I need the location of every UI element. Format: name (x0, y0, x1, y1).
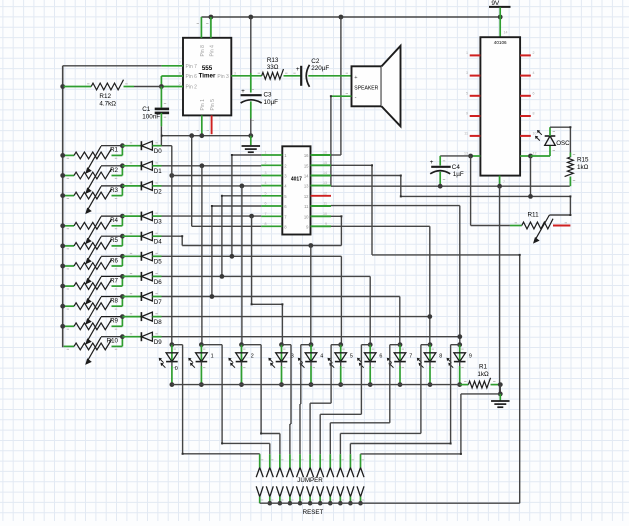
junction trimmer R7 top (120, 274, 125, 279)
diode D2 (141, 181, 152, 190)
label LED7 number (409, 354, 412, 360)
wire LED1 cathode leg (200, 362, 202, 385)
wire gnd riser right (499, 186, 501, 394)
junction gnd symbol node (248, 133, 253, 138)
wire LED4 top connector (301, 344, 311, 346)
ticks D0 (130, 142, 158, 143)
label C1 (142, 106, 151, 113)
label C3 value (264, 99, 279, 106)
wire C3 top leg (250, 73, 252, 93)
svg-text:9: 9 (325, 222, 327, 226)
pin tick marks (87, 23, 575, 382)
wire D8 row (162, 316, 430, 318)
svg-text:D0: D0 (154, 148, 162, 155)
svg-text:10: 10 (304, 214, 309, 219)
label C2 (311, 58, 320, 65)
wire LED5 top connector (331, 344, 341, 346)
wire gnd stub (250, 136, 252, 146)
svg-text:16: 16 (304, 153, 309, 158)
wire rail to R1 (460, 384, 469, 386)
wire pin6 down to pin2 node (160, 76, 162, 87)
junction C3 on bus (248, 15, 253, 20)
wire C3 bottom leg (250, 101, 252, 135)
trimmer R5 (64, 236, 123, 264)
wire LED4 anode leg (310, 345, 312, 363)
ticks R2 (67, 178, 118, 179)
svg-text:1kΩ: 1kΩ (477, 371, 489, 378)
svg-text:15: 15 (323, 161, 327, 165)
op-amp 555 timer body U2 (183, 38, 231, 116)
junction trimmer R8 top (120, 294, 125, 299)
label C3 (264, 91, 273, 98)
speaker SP1 body (352, 46, 401, 127)
svg-text:D2: D2 (154, 188, 162, 195)
ticks R6 (67, 268, 118, 269)
junction R1 gnd (498, 382, 503, 387)
junction rail R12 row (60, 84, 65, 89)
wire gnd node left (461, 393, 500, 395)
ticks LED0 (174, 349, 176, 368)
wire D4 row (162, 236, 183, 245)
wire D3 row to 4017 pin7 (162, 215, 262, 217)
pin 555 pin8 leg (200, 17, 202, 38)
junction pin4 D2 column (240, 184, 245, 189)
pin 555 pin7 leg (161, 65, 183, 67)
wire D6 cathode leg (122, 275, 141, 277)
led LED5 (328, 353, 347, 368)
label D8 (154, 319, 162, 326)
svg-text:C3: C3 (264, 91, 273, 98)
wire R15 bottom leg (569, 177, 571, 187)
labels 4017 outer pin numbers (265, 151, 328, 226)
svg-text:+: + (430, 159, 434, 166)
wire 4017 pin1 to D5 column (232, 155, 261, 256)
svg-text:D5: D5 (154, 259, 162, 266)
trimmer R2 (64, 166, 123, 194)
svg-text:R2: R2 (110, 167, 118, 174)
ticks R1 (67, 158, 118, 159)
junction pin2 pin6 C1 node (159, 84, 164, 89)
label R8 (110, 298, 118, 305)
svg-text:16: 16 (323, 151, 327, 155)
label D7 (154, 299, 162, 306)
wire 9V bar to bus (499, 7, 501, 17)
svg-text:Pin 8: Pin 8 (200, 45, 206, 57)
diode D0 (141, 141, 152, 150)
trimmer R10 (64, 337, 123, 365)
label D3 (154, 219, 162, 226)
ticks D9 (130, 333, 158, 334)
power 9V bar (489, 6, 511, 8)
wire jumper pin7 route (320, 345, 361, 455)
junction pin12 clock (528, 194, 533, 199)
wire D0 cathode leg (122, 145, 141, 147)
ticks LED8 (432, 349, 434, 368)
junction rail R1 (60, 153, 65, 158)
wire jumper pin4 route (290, 345, 291, 455)
svg-text:8: 8 (439, 354, 442, 360)
svg-text:12: 12 (323, 191, 327, 195)
label 555 Pin 5 (210, 99, 216, 111)
svg-text:Pin 3: Pin 3 (217, 74, 229, 80)
svg-text:C2: C2 (311, 58, 320, 65)
svg-text:40106: 40106 (494, 40, 507, 45)
ticks R5 (67, 248, 118, 249)
svg-text:100nF: 100nF (142, 114, 160, 121)
svg-text:JUMPER: JUMPER (297, 477, 323, 484)
svg-text:Pin 4: Pin 4 (209, 45, 215, 57)
label LED8 number (439, 354, 442, 360)
wire C1 bottom leg (160, 113, 162, 136)
wire 4017 pin5 to D6 column (222, 196, 261, 277)
wire LED0 top connector (172, 344, 183, 346)
wire D1 cathode leg (122, 165, 141, 167)
trimmer R7 (64, 276, 123, 304)
wire jumper pin2 route (222, 345, 270, 455)
diode D7 (141, 292, 152, 301)
wire pin12 down to clock (530, 156, 532, 196)
wire R1 right leg (491, 384, 501, 386)
svg-text:8: 8 (533, 112, 535, 116)
svg-text:7: 7 (409, 354, 412, 360)
svg-text:7: 7 (265, 212, 267, 216)
ticks R9 (67, 329, 118, 330)
label LED0 number (175, 366, 178, 372)
wire LED7 top connector (390, 344, 400, 346)
capacitor C1 plates (155, 109, 169, 113)
svg-text:2: 2 (251, 354, 254, 360)
label R15 (577, 157, 589, 164)
led LED6 (357, 353, 376, 368)
svg-text:6: 6 (179, 72, 181, 76)
wire LED3 top connector (282, 344, 292, 346)
wire C4 top leg (439, 156, 441, 166)
label D5 (154, 259, 162, 266)
wire LED1 anode leg (200, 345, 202, 363)
svg-text:4017: 4017 (291, 177, 302, 183)
wire D3 anode leg (152, 215, 161, 217)
svg-text:14: 14 (304, 174, 309, 179)
svg-text:14: 14 (323, 171, 327, 175)
junction rail R3 (60, 193, 65, 198)
labels 4017 pin numbers (284, 153, 309, 229)
wire LED2 top connector (242, 344, 262, 346)
trimmer R3 (64, 186, 123, 214)
pin 40106 pin13 leg (471, 155, 481, 157)
svg-text:3: 3 (265, 171, 267, 175)
svg-text:D1: D1 (154, 168, 162, 175)
wire bend points (161, 95, 572, 455)
junction rail R4 (60, 223, 65, 228)
junction LED8 rail (428, 382, 433, 387)
junction LED3 top (279, 342, 284, 347)
pin 555 pin1 leg (201, 115, 203, 135)
diode D5 (141, 252, 152, 261)
wire R11 wiper (549, 196, 570, 215)
inverter 40106 body U1 (480, 37, 520, 175)
svg-text:Pin 2: Pin 2 (186, 85, 198, 91)
svg-text:9: 9 (469, 354, 472, 360)
led LED0 (159, 353, 178, 368)
resistor R12 zigzag (91, 80, 123, 90)
svg-text:D4: D4 (154, 239, 162, 246)
led LED4 (298, 353, 317, 368)
junction trimmer R2 top (120, 163, 125, 168)
label D4 (154, 239, 162, 246)
wire LED2 cathode leg (241, 362, 243, 385)
counter 4017 body U3 (282, 146, 310, 234)
label 555 Pin 7 (186, 64, 198, 70)
diode D8 (141, 312, 152, 321)
wire D6 anode leg (152, 275, 161, 277)
label C2 value (311, 65, 329, 72)
diode D6 (141, 272, 152, 281)
wire jumper pin5 route (299, 345, 302, 455)
svg-text:+: + (354, 75, 357, 81)
wire pin12 to OSC led (531, 155, 551, 157)
label LED2 number (251, 354, 254, 360)
led LED2 (228, 353, 247, 368)
ticks LED5 (342, 349, 344, 368)
junction LED1 top (199, 342, 204, 347)
wire C4 bottom leg (439, 172, 441, 186)
wire OSC top to R15 (550, 127, 570, 152)
junction LED7 top (398, 342, 403, 347)
svg-text:D8: D8 (154, 319, 162, 326)
label R9 (110, 318, 118, 325)
svg-text:R7: R7 (110, 277, 118, 284)
wire LED5 cathode leg (340, 362, 342, 385)
label D6 (154, 279, 162, 286)
trimmer R11 zigzag (522, 219, 553, 229)
wire LED9 top connector (451, 344, 460, 346)
wire D2 row to 4017 pin4 (162, 185, 262, 187)
diode D1 (141, 161, 152, 170)
pin 555 pin3 leg (231, 75, 261, 77)
label R13 (267, 57, 279, 64)
junction LED4 rail (309, 382, 314, 387)
diode D4 (141, 232, 152, 241)
wire LED6 top connector (361, 344, 370, 346)
wire speaker minus down (330, 96, 332, 185)
svg-text:R8: R8 (110, 298, 118, 305)
svg-text:0: 0 (175, 366, 178, 372)
junction rail R5 (60, 244, 65, 249)
svg-text:1µF: 1µF (453, 171, 464, 178)
trimmer R4 (64, 216, 123, 244)
junction pin7 D3 column (249, 214, 254, 219)
svg-text:D7: D7 (154, 299, 162, 306)
wire D4 anode leg (152, 235, 161, 237)
svg-text:15: 15 (304, 163, 309, 168)
wire jumper pin3 route (261, 345, 280, 455)
junction trimmer R1 top (120, 143, 125, 148)
wire LED2 anode leg (241, 345, 243, 363)
wire bus to C3 (250, 17, 252, 73)
svg-text:13: 13 (323, 181, 327, 185)
wire LED4 cathode leg (310, 362, 312, 385)
wire LED8 top connector (421, 344, 430, 346)
wire D9 row (162, 336, 460, 338)
svg-text:5: 5 (350, 354, 353, 360)
svg-text:Pin 7: Pin 7 (186, 64, 198, 70)
junction gnd 4017pin8 riser (189, 133, 194, 138)
label 555 Pin 8 (200, 45, 206, 57)
svg-text:R12: R12 (99, 93, 111, 100)
ticks LED3 (283, 349, 285, 368)
label LED9 number (469, 354, 472, 360)
svg-text:6: 6 (265, 202, 267, 206)
svg-text:3: 3 (466, 71, 468, 75)
svg-text:1kΩ: 1kΩ (577, 164, 589, 171)
power 9V label (491, 0, 500, 7)
wire D8 anode leg (152, 316, 161, 318)
junction trimmer R5 top (120, 234, 125, 239)
wire D3 cathode leg (122, 215, 141, 217)
svg-text:R15: R15 (577, 157, 589, 164)
wire D5 cathode leg (122, 255, 141, 257)
pins 40106 unconnected red (470, 55, 531, 135)
wire D7 cathode leg (122, 296, 141, 298)
svg-text:R9: R9 (110, 318, 118, 325)
svg-text:4: 4 (265, 181, 267, 185)
connector JUMPER pins (256, 454, 364, 477)
svg-text:7: 7 (179, 61, 181, 65)
wire LED cathode rail (172, 384, 460, 386)
junction gnd right node (498, 392, 503, 397)
wire 4017 pin14 clock riser (331, 176, 401, 197)
junction LED6 rail (368, 382, 373, 387)
wire gnd symbol stub (499, 394, 501, 401)
junction LED3 rail (279, 382, 284, 387)
svg-text:R3: R3 (110, 187, 118, 194)
svg-text:R6: R6 (110, 257, 118, 264)
wire speaker minus leg (331, 95, 352, 97)
svg-text:1: 1 (265, 151, 267, 155)
resistor R13 zigzag (262, 69, 284, 79)
pins 4017 legs (261, 155, 331, 226)
pin 555 pin2 leg (161, 86, 183, 88)
ticks R7 (67, 289, 118, 290)
trimmer R6 (64, 256, 123, 284)
trimmer R9 (64, 317, 123, 345)
ticks LED6 (372, 349, 374, 368)
junction C4 gnd (438, 184, 443, 189)
label 555 Pin 1 (200, 99, 206, 111)
label 555 Pin 2 (186, 85, 198, 91)
label speaker minus (355, 94, 357, 100)
svg-text:R11: R11 (528, 212, 540, 219)
wire OSC led bottom leg (549, 145, 551, 156)
label LED3 number (291, 354, 294, 360)
svg-text:11: 11 (323, 202, 327, 206)
label 555 Pin 6 (186, 74, 198, 80)
svg-text:8: 8 (265, 222, 267, 226)
junction LED9 rail (457, 382, 462, 387)
svg-text:D9: D9 (154, 339, 162, 346)
wire gnd2 line (331, 185, 570, 187)
capacitor C3 plates (241, 95, 262, 103)
wire pin13 to C4 (440, 155, 470, 157)
label R12 (99, 93, 111, 100)
svg-text:5: 5 (265, 191, 267, 195)
junction rail R2 (60, 173, 65, 178)
ticks D4 (130, 233, 158, 234)
pin R11 right red (553, 225, 570, 227)
label 555 Pin 4 (209, 45, 215, 57)
junction LED9 top (457, 342, 462, 347)
junction LED6 top (368, 342, 373, 347)
svg-text:6: 6 (379, 354, 382, 360)
wire bus to 4017 pin16 (340, 17, 342, 155)
wire D9 cathode leg (122, 336, 141, 338)
wire pin13 down to R11 (471, 156, 510, 226)
svg-text:10: 10 (323, 212, 327, 216)
wire jumper pin11 route (361, 394, 461, 454)
pin 40106 pin7 leg (499, 176, 501, 187)
led LED8 (417, 353, 436, 368)
ticks D3 (130, 213, 158, 214)
svg-text:2: 2 (533, 51, 535, 55)
junction 40106 pin12 node (528, 154, 533, 159)
junction LED4 feed (308, 243, 313, 248)
diode D3 (141, 212, 152, 221)
wire LED0 anode leg (171, 345, 173, 363)
wire R13 to C2 (284, 75, 302, 77)
svg-text:7: 7 (503, 180, 505, 184)
label 555 Pin 3 (217, 74, 229, 80)
svg-text:Pin 1: Pin 1 (200, 99, 206, 111)
svg-text:R5: R5 (110, 237, 118, 244)
svg-text:R4: R4 (110, 217, 118, 224)
wire D0 anode leg (152, 145, 161, 147)
trimmer R1 (64, 146, 123, 174)
junction LED2 rail (239, 382, 244, 387)
wire 4017 pin15 reset riser (331, 165, 372, 255)
junction trimmer R6 top (120, 254, 125, 259)
svg-text:4: 4 (533, 71, 535, 75)
junction LED5 top (338, 342, 343, 347)
wire 4017 pin11 to LED9 column (331, 206, 460, 345)
ticks D2 (130, 183, 158, 184)
labels 40106 pin numbers (464, 31, 537, 185)
capacitor C2 plates (301, 65, 309, 87)
wire reset line (372, 255, 520, 503)
wire OSC led top leg (549, 127, 551, 136)
label 4017 (291, 177, 302, 183)
svg-text:Pin 5: Pin 5 (210, 99, 216, 111)
label C4 (452, 164, 461, 171)
svg-text:9: 9 (466, 112, 468, 116)
label LED4 number (320, 354, 323, 360)
ticks R4 (67, 228, 118, 229)
junction LED8 top (428, 342, 433, 347)
wire gnd line to D0 bend (160, 136, 162, 146)
wire D2 cathode leg (122, 185, 141, 187)
svg-text:220µF: 220µF (311, 65, 329, 72)
svg-text:13: 13 (304, 184, 309, 189)
svg-text:13: 13 (464, 152, 468, 156)
junction pin1 D5 (230, 254, 235, 259)
ticks D6 (130, 273, 158, 274)
wire LED8 anode leg (429, 345, 431, 363)
svg-text:OSC: OSC (556, 140, 570, 147)
wire D5 anode leg (152, 255, 161, 257)
wire LED1 feed (201, 166, 203, 345)
wire LED8 cathode leg (429, 362, 431, 385)
junction rail R7 (60, 284, 65, 289)
svg-text:12: 12 (533, 152, 537, 156)
